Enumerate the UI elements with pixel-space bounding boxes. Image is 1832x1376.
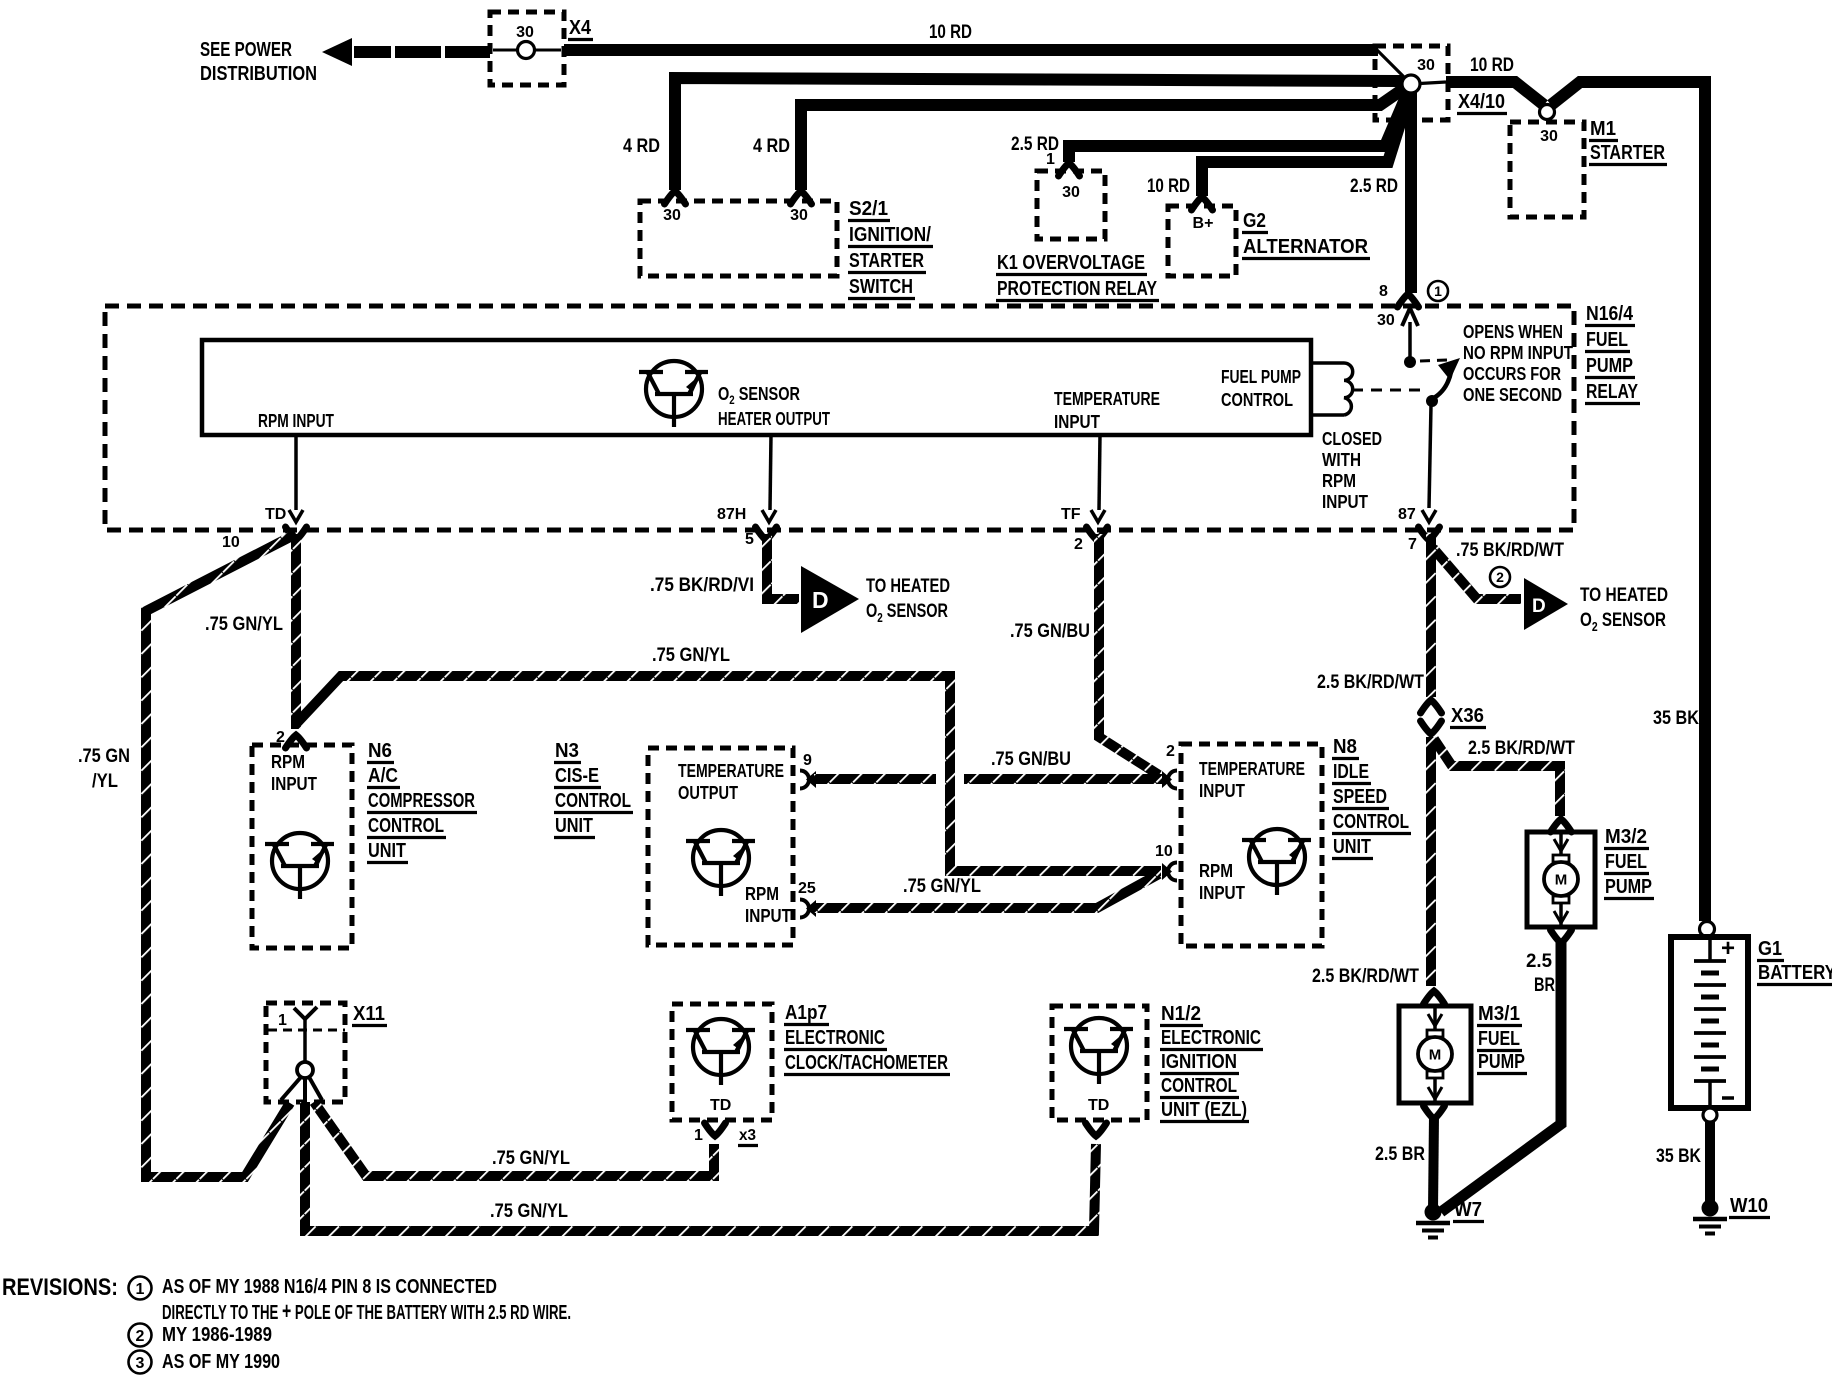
svg-text:RPM INPUT: RPM INPUT: [258, 411, 334, 431]
svg-text:K1 OVERVOLTAGE: K1 OVERVOLTAGE: [997, 252, 1145, 274]
svg-text:INPUT: INPUT: [745, 906, 791, 926]
svg-text:BATTERY: BATTERY: [1758, 962, 1832, 984]
svg-text:OUTPUT: OUTPUT: [678, 783, 738, 803]
svg-text:N1/2: N1/2: [1161, 1003, 1201, 1025]
svg-text:30: 30: [1377, 312, 1395, 329]
svg-text:SEE POWER: SEE POWER: [200, 39, 292, 61]
svg-text:CONTROL: CONTROL: [1221, 390, 1293, 410]
svg-text:TD: TD: [1088, 1097, 1109, 1114]
svg-text:87H: 87H: [717, 506, 746, 523]
svg-text:.75 GN/YL: .75 GN/YL: [492, 1148, 570, 1169]
svg-text:STARTER: STARTER: [849, 250, 924, 272]
svg-text:4 RD: 4 RD: [753, 136, 790, 157]
svg-text:COMPRESSOR: COMPRESSOR: [368, 790, 475, 812]
svg-text:INPUT: INPUT: [271, 774, 317, 794]
svg-text:PUMP: PUMP: [1478, 1051, 1525, 1073]
svg-text:CONTROL: CONTROL: [368, 815, 444, 837]
svg-text:10: 10: [222, 534, 240, 551]
svg-text:SWITCH: SWITCH: [849, 276, 913, 298]
svg-text:.75 GN: .75 GN: [78, 746, 130, 767]
svg-text:FUEL: FUEL: [1586, 329, 1628, 351]
svg-text:M: M: [1429, 1047, 1442, 1064]
svg-text:IGNITION/: IGNITION/: [849, 224, 931, 246]
svg-text:ELECTRONIC: ELECTRONIC: [785, 1027, 885, 1049]
svg-text:1: 1: [136, 1281, 145, 1298]
svg-text:WITH: WITH: [1322, 450, 1361, 470]
svg-text:TEMPERATURE: TEMPERATURE: [1199, 759, 1305, 779]
svg-text:G1: G1: [1758, 938, 1782, 960]
svg-text:2.5 RD: 2.5 RD: [1350, 176, 1398, 197]
svg-text:M: M: [1555, 872, 1568, 889]
svg-text:DISTRIBUTION: DISTRIBUTION: [200, 63, 317, 85]
svg-text:2.5 BK/RD/WT: 2.5 BK/RD/WT: [1312, 966, 1419, 987]
svg-text:35 BK: 35 BK: [1656, 1146, 1701, 1167]
svg-text:TEMPERATURE: TEMPERATURE: [678, 761, 784, 781]
svg-text:.75 GN/YL: .75 GN/YL: [903, 876, 981, 897]
svg-text:D: D: [812, 587, 829, 613]
svg-text:8: 8: [1379, 283, 1388, 300]
svg-text:30: 30: [663, 207, 681, 224]
svg-text:UNIT: UNIT: [368, 840, 406, 862]
svg-text:30: 30: [790, 207, 808, 224]
svg-text:.75 GN/YL: .75 GN/YL: [205, 614, 283, 635]
svg-text:M1: M1: [1590, 118, 1616, 140]
svg-text:10 RD: 10 RD: [1470, 55, 1514, 76]
svg-text:30: 30: [516, 24, 534, 41]
svg-text:G2: G2: [1243, 210, 1266, 232]
svg-text:UNIT (EZL): UNIT (EZL): [1161, 1099, 1247, 1121]
svg-text:30: 30: [1417, 57, 1435, 74]
svg-text:HEATER OUTPUT: HEATER OUTPUT: [718, 409, 830, 429]
svg-text:TO HEATED: TO HEATED: [866, 576, 950, 597]
svg-text:STARTER: STARTER: [1590, 142, 1665, 164]
svg-text:UNIT: UNIT: [555, 815, 593, 837]
svg-text:INPUT: INPUT: [1199, 781, 1245, 801]
svg-text:PUMP: PUMP: [1586, 355, 1633, 377]
svg-text:W10: W10: [1730, 1195, 1768, 1217]
svg-text:2: 2: [1496, 569, 1504, 585]
svg-text:2.5: 2.5: [1526, 951, 1552, 972]
svg-text:25: 25: [798, 880, 816, 897]
svg-text:X4: X4: [569, 17, 592, 39]
svg-text:1: 1: [278, 1012, 287, 1029]
svg-text:B+: B+: [1193, 215, 1214, 232]
svg-text:N8: N8: [1333, 736, 1357, 758]
svg-text:1: 1: [1046, 151, 1055, 168]
svg-text:OPENS WHEN: OPENS WHEN: [1463, 322, 1563, 342]
svg-text:5: 5: [745, 531, 754, 548]
svg-text:1: 1: [1434, 283, 1442, 299]
svg-text:CLOSED: CLOSED: [1322, 429, 1382, 449]
svg-text:TF: TF: [1061, 506, 1081, 523]
svg-text:RPM: RPM: [1322, 471, 1356, 491]
svg-text:2: 2: [1166, 743, 1175, 760]
svg-text:RPM: RPM: [745, 884, 779, 904]
svg-text:IDLE: IDLE: [1333, 761, 1369, 783]
svg-text:TO HEATED: TO HEATED: [1580, 585, 1668, 606]
svg-text:10 RD: 10 RD: [929, 22, 972, 43]
svg-text:M3/2: M3/2: [1605, 826, 1647, 848]
svg-text:INPUT: INPUT: [1054, 412, 1100, 432]
svg-text:N6: N6: [368, 740, 392, 762]
svg-text:10: 10: [1155, 843, 1173, 860]
svg-text:TD: TD: [710, 1097, 731, 1114]
svg-text:2.5 BR: 2.5 BR: [1375, 1144, 1425, 1165]
svg-text:CONTROL: CONTROL: [555, 790, 631, 812]
svg-text:FUEL PUMP: FUEL PUMP: [1221, 367, 1301, 387]
svg-text:BR: BR: [1534, 975, 1555, 996]
svg-text:ALTERNATOR: ALTERNATOR: [1243, 236, 1369, 258]
svg-text:ELECTRONIC: ELECTRONIC: [1161, 1027, 1261, 1049]
svg-text:.75 GN/BU: .75 GN/BU: [991, 749, 1071, 770]
svg-text:2.5 BK/RD/WT: 2.5 BK/RD/WT: [1317, 672, 1424, 693]
svg-text:10 RD: 10 RD: [1147, 176, 1190, 197]
svg-text:X11: X11: [353, 1003, 385, 1025]
svg-text:CONTROL: CONTROL: [1161, 1075, 1237, 1097]
svg-text:.75 BK/RD/VI: .75 BK/RD/VI: [650, 575, 754, 596]
svg-text:.75 GN/YL: .75 GN/YL: [490, 1201, 568, 1222]
svg-text:INPUT: INPUT: [1199, 883, 1245, 903]
svg-text:CONTROL: CONTROL: [1333, 811, 1409, 833]
svg-text:S2/1: S2/1: [849, 198, 888, 220]
svg-text:INPUT: INPUT: [1322, 492, 1368, 512]
svg-text:RPM: RPM: [1199, 861, 1233, 881]
svg-text:CLOCK/TACHOMETER: CLOCK/TACHOMETER: [785, 1052, 948, 1074]
svg-text:30: 30: [1062, 184, 1080, 201]
svg-text:REVISIONS:: REVISIONS:: [2, 1274, 118, 1301]
svg-text:FUEL: FUEL: [1605, 851, 1647, 873]
svg-text:X36: X36: [1451, 705, 1484, 727]
svg-text:9: 9: [803, 752, 812, 769]
svg-text:RPM: RPM: [271, 752, 305, 772]
svg-text:2: 2: [1074, 536, 1083, 553]
svg-text:M3/1: M3/1: [1478, 1003, 1520, 1025]
svg-text:30: 30: [1540, 128, 1558, 145]
svg-text:7: 7: [1408, 536, 1417, 553]
svg-text:A/C: A/C: [368, 765, 398, 787]
svg-text:RELAY: RELAY: [1586, 381, 1639, 403]
svg-text:4 RD: 4 RD: [623, 136, 660, 157]
svg-text:CIS-E: CIS-E: [555, 765, 599, 787]
svg-text:.75 GN/YL: .75 GN/YL: [652, 645, 730, 666]
svg-text:AS OF MY 1990: AS OF MY 1990: [162, 1351, 280, 1373]
svg-text:N3: N3: [555, 740, 579, 762]
svg-text:TEMPERATURE: TEMPERATURE: [1054, 389, 1160, 409]
svg-text:PUMP: PUMP: [1605, 876, 1652, 898]
svg-text:PROTECTION RELAY: PROTECTION RELAY: [997, 278, 1158, 300]
svg-text:35 BK: 35 BK: [1653, 708, 1699, 729]
svg-text:TD: TD: [265, 506, 286, 523]
svg-text:/YL: /YL: [92, 771, 118, 792]
svg-text:IGNITION: IGNITION: [1161, 1051, 1237, 1073]
svg-text:ONE SECOND: ONE SECOND: [1463, 385, 1562, 405]
svg-text:87: 87: [1398, 506, 1416, 523]
svg-text:1: 1: [694, 1127, 703, 1144]
svg-text:W7: W7: [1454, 1199, 1482, 1221]
svg-text:FUEL: FUEL: [1478, 1028, 1520, 1050]
svg-text:DIRECTLY TO THE + POLE OF THE: DIRECTLY TO THE + POLE OF THE BATTERY WI…: [162, 1298, 571, 1325]
svg-text:X4/10: X4/10: [1458, 91, 1505, 113]
svg-text:x3: x3: [739, 1127, 756, 1144]
svg-text:NO RPM INPUT: NO RPM INPUT: [1463, 343, 1573, 363]
svg-text:+: +: [1721, 935, 1735, 962]
svg-text:AS OF MY 1988 N16/4 PIN 8 IS C: AS OF MY 1988 N16/4 PIN 8 IS CONNECTED: [162, 1276, 497, 1298]
svg-text:MY 1986-1989: MY 1986-1989: [162, 1324, 272, 1346]
svg-text:UNIT: UNIT: [1333, 836, 1371, 858]
svg-text:SPEED: SPEED: [1333, 786, 1387, 808]
svg-text:.75 BK/RD/WT: .75 BK/RD/WT: [1456, 540, 1564, 561]
svg-text:3: 3: [136, 1355, 145, 1372]
svg-text:N16/4: N16/4: [1586, 303, 1634, 325]
svg-text:2.5 BK/RD/WT: 2.5 BK/RD/WT: [1468, 738, 1575, 759]
svg-text:D: D: [1532, 596, 1546, 617]
svg-text:OCCURS FOR: OCCURS FOR: [1463, 364, 1561, 384]
svg-text:A1p7: A1p7: [785, 1002, 827, 1024]
svg-text:.75 GN/BU: .75 GN/BU: [1010, 621, 1090, 642]
svg-text:2: 2: [136, 1328, 145, 1345]
